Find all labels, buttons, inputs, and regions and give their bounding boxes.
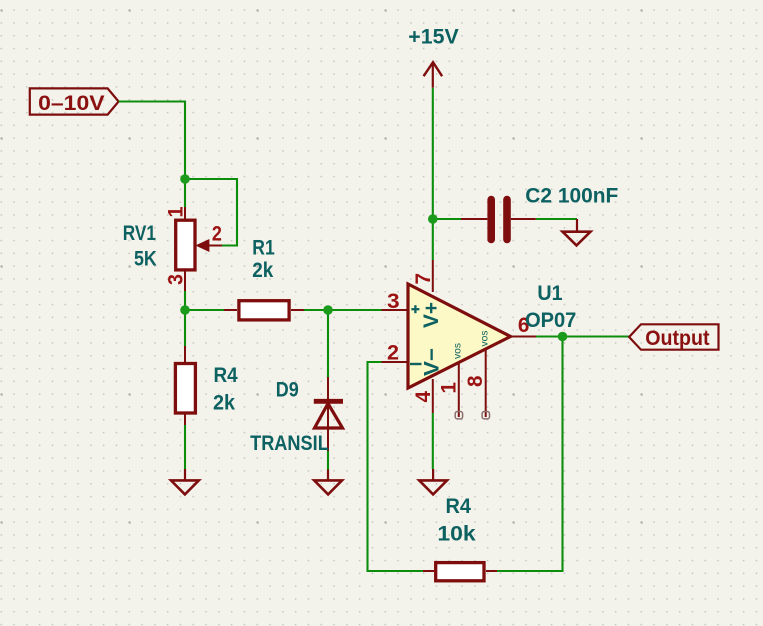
svg-text:TRANSIL: TRANSIL (250, 432, 329, 455)
svg-text:8: 8 (464, 375, 487, 387)
svg-text:D9: D9 (276, 378, 299, 401)
resistor R4 10k feedback (423, 563, 497, 581)
ground for D9 (314, 470, 342, 495)
wire junction to C2 left (433, 218, 461, 220)
svg-text:2k: 2k (252, 259, 273, 282)
svg-text:3: 3 (164, 274, 187, 285)
svg-text:Output: Output (645, 327, 709, 350)
svg-text:R1: R1 (252, 237, 275, 260)
svg-text:1: 1 (437, 382, 460, 394)
pin name + (pin 3) (411, 305, 419, 313)
junction node +15V / C2 (428, 214, 438, 224)
svg-text:3: 3 (387, 290, 400, 313)
wire R4 bottom to ground (184, 425, 186, 469)
svg-text:10k: 10k (437, 523, 476, 546)
capacitor C2 (461, 200, 536, 240)
svg-text:4: 4 (412, 391, 435, 403)
svg-text:RV1: RV1 (123, 222, 156, 245)
wire op-amp pin6 to Output label (536, 335, 629, 337)
svg-text:C2 100nF: C2 100nF (525, 185, 618, 208)
pin name - (pin 2) (410, 363, 422, 365)
op-amp pin 1 (455, 363, 462, 419)
junction node RV1 top (180, 174, 190, 184)
op-amp pin 4 (432, 379, 434, 413)
junction node RV1 bottom (180, 305, 190, 315)
op-amp pin 2 (382, 361, 409, 363)
potentiometer RV1 (176, 207, 222, 291)
wire op-amp pin2 feedback loop (368, 362, 424, 571)
svg-text:7: 7 (412, 273, 435, 285)
op-amp pin 6 (511, 336, 537, 338)
op-amp pin 8 (482, 349, 489, 419)
diode D9 TRANSIL (314, 377, 343, 451)
ground for C2 (563, 219, 591, 245)
wire C2 right to ground (536, 218, 577, 220)
svg-text:0–10V: 0–10V (38, 92, 105, 115)
ground for op-amp pin 4 (419, 469, 447, 494)
wire from 0-10V label to corner (119, 102, 185, 208)
wire D9 to ground (327, 451, 329, 470)
svg-text:U1: U1 (537, 282, 562, 305)
wire junction to D9 (327, 310, 329, 377)
svg-text:R4: R4 (214, 364, 238, 387)
svg-text:V+: V+ (420, 302, 443, 328)
svg-text:2: 2 (387, 342, 399, 365)
hierarchical label 0-10V (30, 88, 119, 115)
svg-text:vos: vos (452, 343, 464, 359)
wire R4 10k right to output junction (497, 337, 563, 572)
junction node output / feedback (558, 332, 568, 342)
svg-text:V−: V− (420, 348, 443, 376)
wire R1 right to op-amp pin3 (304, 309, 382, 311)
op-amp pin 3 (382, 309, 409, 311)
junction node D9 tap (323, 305, 333, 315)
hierarchical label Output (629, 324, 718, 350)
resistor R4 2k (175, 346, 195, 425)
wire junction to R1 left (185, 309, 224, 311)
ground for R4 (171, 469, 199, 494)
op-amp U1 OP07 (408, 284, 511, 388)
power symbol +15V (424, 62, 443, 87)
op-amp pin 7 (432, 260, 434, 292)
svg-text:2: 2 (212, 223, 222, 246)
resistor R1 (224, 301, 304, 320)
svg-text:R4: R4 (446, 495, 472, 518)
wire RV1 bypass top (185, 179, 237, 246)
svg-text:1: 1 (164, 206, 187, 217)
svg-text:5K: 5K (134, 247, 157, 270)
svg-text:2k: 2k (213, 392, 235, 415)
svg-text:+15V: +15V (408, 26, 458, 49)
svg-text:vos: vos (479, 331, 491, 347)
wire +15V to junction to op-amp pin7 (432, 88, 434, 260)
svg-text:OP07: OP07 (525, 309, 576, 332)
wire op-amp pin4 to ground (432, 413, 434, 469)
wire RV1 pin3 to junction to R4 (184, 291, 186, 346)
